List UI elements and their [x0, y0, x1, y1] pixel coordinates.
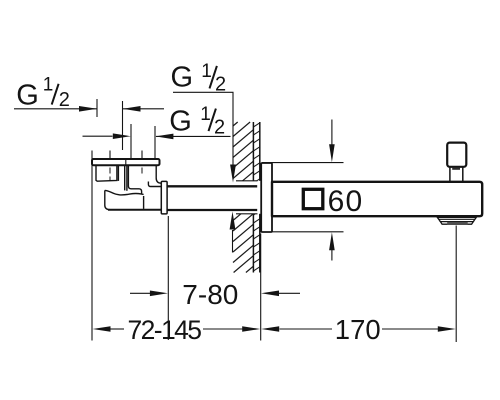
- svg-text:72-145: 72-145: [128, 315, 202, 345]
- svg-text:1: 1: [201, 61, 212, 82]
- svg-text:60: 60: [328, 185, 364, 218]
- svg-text:2: 2: [214, 116, 225, 138]
- svg-text:G: G: [171, 62, 194, 94]
- svg-text:1: 1: [200, 104, 211, 125]
- svg-text:2: 2: [59, 89, 70, 111]
- svg-text:G: G: [16, 80, 39, 112]
- svg-text:G: G: [169, 106, 192, 138]
- svg-text:7-80: 7-80: [182, 279, 238, 310]
- svg-text:170: 170: [335, 314, 381, 345]
- svg-text:1: 1: [43, 74, 54, 95]
- svg-text:2: 2: [215, 74, 226, 96]
